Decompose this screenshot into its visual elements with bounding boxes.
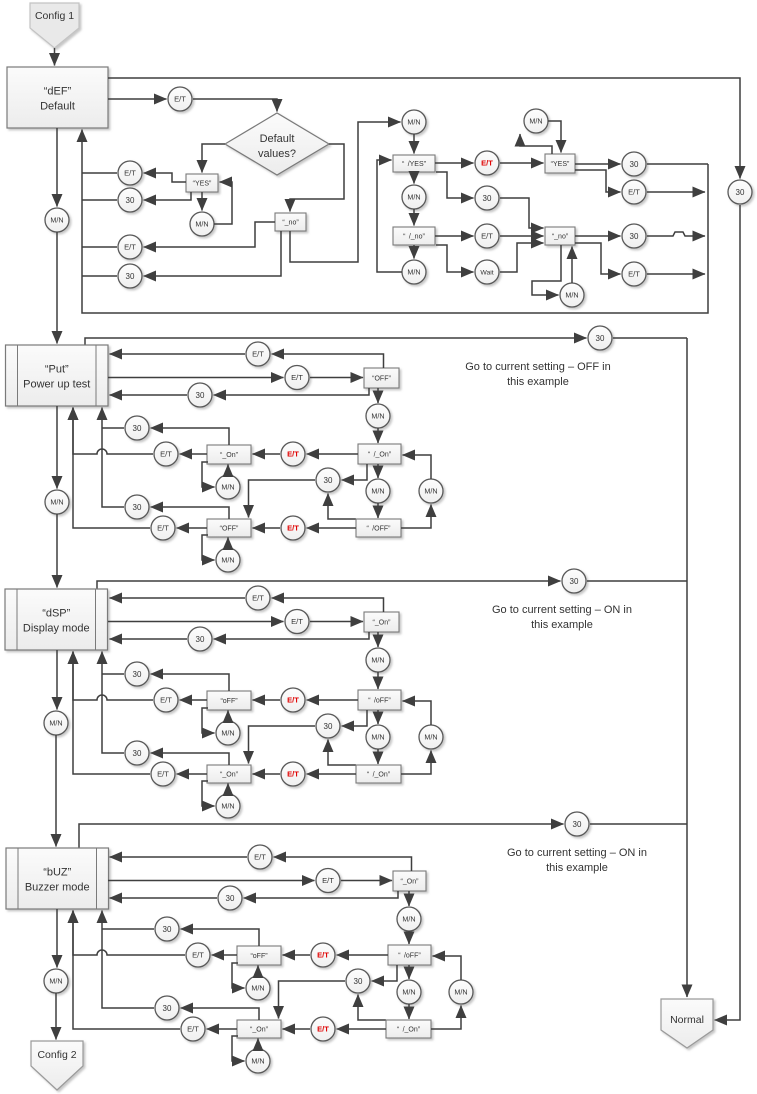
svg-text:Normal: Normal	[670, 1014, 704, 1026]
svg-text:E/T: E/T	[157, 524, 169, 533]
wire YES2 to M/N top loop	[520, 134, 552, 154]
wire YES2 to 30	[575, 163, 621, 165]
node 30 far right	[728, 180, 752, 204]
node M/N s4 hook2	[246, 1049, 270, 1073]
svg-text:30: 30	[133, 670, 142, 679]
wire /YES to E/T red	[435, 162, 474, 164]
svg-text:E/T: E/T	[174, 95, 186, 104]
state _no right	[545, 227, 575, 245]
wire s3 30 to down rail	[587, 580, 687, 582]
node E/T red s4 b	[311, 1017, 335, 1041]
wire Wait to _no right	[500, 243, 544, 272]
wire s2 botboxr to M/N right	[401, 505, 431, 529]
svg-text:Config 2: Config 2	[37, 1049, 76, 1061]
wire E/T row to right rail	[647, 191, 705, 193]
wire s4 midbox to E/T red	[337, 954, 389, 956]
wire s4 midbox to M/N b	[408, 965, 410, 979]
wire far-right down to Normal right side	[715, 205, 741, 1020]
wire s2 botboxl top to 30	[151, 507, 230, 519]
svg-text:E/T: E/T	[192, 951, 204, 960]
wire s3 botboxl hook to M/N	[202, 781, 215, 806]
node E/T s3 r1	[246, 586, 270, 610]
wire s3 M/N to midbox	[377, 672, 379, 689]
wire s3 topbox to M/N	[377, 632, 379, 647]
state s4 /_On	[386, 1020, 431, 1038]
node E/T s4 r2	[316, 869, 340, 893]
process s4 bUZ	[6, 848, 109, 909]
node E/T red s2 b	[281, 516, 305, 540]
wire s3 midbox corner to 30mid	[342, 710, 368, 726]
svg-text:Display mode: Display mode	[23, 623, 90, 635]
node 30 s4 midleft	[155, 917, 179, 941]
node E/T s2 bot	[151, 516, 175, 540]
svg-text:“YES”: “YES”	[551, 161, 570, 168]
svg-text:E/T: E/T	[287, 524, 299, 533]
svg-text:Go to current setting – OFF in: Go to current setting – OFF in	[465, 361, 611, 373]
wire /YES corner to 30d	[436, 172, 474, 198]
svg-text:M/N: M/N	[407, 268, 420, 277]
node Wait	[475, 260, 499, 284]
svg-text:values?: values?	[258, 148, 296, 160]
node E/T s2 mid	[154, 442, 178, 466]
node E/T red s2 a	[281, 442, 305, 466]
node M/N s1g	[402, 110, 426, 134]
wire bUZ to M/N spine4	[56, 909, 58, 968]
svg-text:M/N: M/N	[402, 915, 415, 924]
svg-text:M/N: M/N	[221, 802, 234, 811]
wire s2 M/N b to botbox	[377, 503, 379, 518]
node E/T red s4 a	[311, 943, 335, 967]
node M/N s4 b	[397, 980, 421, 1004]
svg-text:“bUZ”: “bUZ”	[43, 867, 71, 879]
wire s2 30 to rail102	[102, 427, 124, 429]
svg-text:E/T: E/T	[252, 594, 264, 603]
svg-text:this example: this example	[531, 619, 593, 631]
wire YES2 to E/T row	[575, 170, 621, 192]
svg-text:E/T: E/T	[481, 159, 493, 168]
wire s4 E/T r2 to topbox	[341, 880, 392, 882]
wire goto rail down to Normal	[686, 338, 688, 997]
wire s2 M/N right loop to midbox	[403, 455, 432, 479]
node M/N s1o	[402, 260, 426, 284]
node 30 s1j	[622, 152, 646, 176]
wire s3 topbox to E/T row1	[272, 598, 384, 612]
note s2 goto text	[465, 361, 611, 388]
wire s2 E/T red to leftbox	[253, 453, 281, 455]
svg-text:“ /oFF”: “ /oFF”	[368, 698, 391, 705]
state s2 OFF	[207, 519, 251, 537]
wire diamond yes branch to YES box	[202, 144, 225, 173]
node 30 s4 botleft	[155, 996, 179, 1020]
process s2 Put	[6, 345, 109, 406]
wire dSP to M/N spine3	[56, 650, 58, 710]
wire s3 E/T to left rail	[73, 652, 153, 701]
wire s4 midbox corner to 30mid	[372, 965, 398, 981]
wire s2 30 r3 to box	[110, 394, 188, 396]
svg-text:M/N: M/N	[371, 656, 384, 665]
state _no left	[275, 213, 306, 231]
wire s3 M/N b to botbox	[377, 749, 379, 764]
node 30 s3 goto	[562, 569, 586, 593]
wire section1 return loop	[82, 130, 708, 314]
process s3 dSP	[5, 589, 108, 650]
wire s4 botboxr to E/T red2	[337, 1028, 387, 1030]
wire s2 midbox to E/T red	[307, 453, 359, 455]
state s3 _On top	[364, 612, 399, 632]
svg-text:30: 30	[573, 820, 582, 829]
svg-text:“dEF”: “dEF”	[44, 86, 72, 98]
node M/N s3 hook1	[216, 721, 240, 745]
wire _no feedback to right cluster M/N	[290, 122, 401, 262]
wire 30 to right rail	[647, 163, 708, 165]
svg-text:“ /YES”: “ /YES”	[402, 161, 427, 168]
node M/N s2 b	[366, 479, 390, 503]
wire s3 30 to rail102 up	[102, 652, 124, 754]
wire dEF down to M/N spine	[56, 128, 58, 207]
svg-text:E/T: E/T	[252, 350, 264, 359]
node 30 s2 botleft	[125, 495, 149, 519]
wire s2 M/N up into leftbox	[227, 465, 229, 476]
node E/T s1n	[475, 224, 499, 248]
svg-text:E/T: E/T	[317, 951, 329, 960]
node E/T red s3 a	[281, 688, 305, 712]
node 30 s1m	[475, 186, 499, 210]
svg-text:M/N: M/N	[251, 1057, 264, 1066]
wire 30 to return rail	[82, 199, 117, 201]
wire _no to 30 row4	[144, 231, 282, 276]
wire s2 30 to down rail	[613, 337, 687, 339]
svg-text:30: 30	[630, 160, 639, 169]
svg-text:this example: this example	[546, 862, 608, 874]
node 30 s2 mid	[316, 468, 340, 492]
svg-text:“Put”: “Put”	[45, 364, 69, 376]
node M/N s1i	[524, 109, 548, 133]
wire s3 box to E/T r2	[108, 621, 284, 623]
svg-text:Default: Default	[260, 133, 295, 145]
svg-text:M/N: M/N	[402, 988, 415, 997]
wire s2 topbox to M/N	[377, 388, 379, 403]
svg-text:E/T: E/T	[287, 450, 299, 459]
wire _no right to 30	[575, 235, 621, 237]
state s2 /OFF	[356, 519, 401, 537]
wire s4 30 to rail102	[102, 928, 154, 930]
wire E/T to diamond	[193, 99, 277, 112]
wire /_no to E/T	[435, 235, 474, 237]
svg-text:“oFF”: “oFF”	[250, 953, 268, 960]
node 30 s3 botleft	[125, 741, 149, 765]
node M/N s4 hook1	[246, 976, 270, 1000]
state YES right	[545, 154, 575, 173]
wire M/N loop into YES2	[548, 121, 561, 153]
wire s4 botboxl to E/T2	[207, 1028, 238, 1030]
wire spine4 to Config2	[55, 993, 57, 1040]
wire diamond no branch to _no box	[290, 144, 344, 212]
svg-text:E/T: E/T	[160, 450, 172, 459]
wire s3 botboxr corner to 30mid	[328, 740, 356, 766]
wire spine3 to bUZ	[55, 735, 57, 847]
wire s2 midbox corner to 30mid	[342, 464, 368, 480]
wire s4 E/T red to leftbox	[283, 954, 311, 956]
svg-text:“_On”: “_On”	[220, 452, 239, 459]
node M/N s3 b	[366, 725, 390, 749]
svg-text:E/T: E/T	[254, 853, 266, 862]
node 30 s3 mid	[316, 714, 340, 738]
wire s4 M/N to midbox	[408, 931, 410, 944]
wire s2 E/T2 to rail73	[73, 408, 150, 529]
node M/N spine2	[45, 490, 69, 514]
node M/N spine4	[44, 969, 68, 993]
wire dEF to E/T	[108, 98, 167, 100]
node E/T s1c	[118, 161, 142, 185]
svg-text:30: 30	[324, 722, 333, 731]
wire s2 30 to rail102 up	[102, 408, 124, 508]
svg-text:M/N: M/N	[221, 556, 234, 565]
node 30 s3 midleft	[125, 662, 149, 686]
wire s3 midbox to E/T red	[307, 699, 359, 701]
node E/T red s3 b	[281, 762, 305, 786]
terminator Normal	[661, 999, 713, 1048]
wire s3 E/T2 to rail73	[73, 652, 150, 775]
svg-text:E/T: E/T	[628, 188, 640, 197]
svg-text:“ /_no”: “ /_no”	[403, 234, 425, 241]
wire s4 E/T2 to rail73	[73, 911, 180, 1030]
decision Default values?	[225, 113, 329, 175]
terminator Config 2	[31, 1041, 83, 1090]
wire s4 botboxr corner to 30mid	[358, 995, 386, 1021]
svg-text:“YES”: “YES”	[193, 181, 212, 188]
svg-text:30: 30	[196, 391, 205, 400]
wire /_no corner to Wait	[436, 245, 474, 272]
node 30 s4 goto	[565, 812, 589, 836]
wire /_no to M/N below	[413, 245, 415, 259]
svg-text:M/N: M/N	[407, 118, 420, 127]
wire s2 botboxr to E/T red2	[307, 527, 357, 529]
wire s4 E/T red2 to botboxl	[283, 1028, 311, 1030]
svg-text:30: 30	[736, 188, 745, 197]
wire YES to 30 left	[144, 192, 192, 200]
wire s2 E/T to left rail	[73, 408, 153, 455]
wire MN loop back to YES	[214, 182, 232, 224]
node 30 s4 r3	[218, 886, 242, 910]
wire YES to E/T left	[144, 173, 187, 182]
wire E/T red to YES2	[500, 162, 544, 164]
svg-text:M/N: M/N	[371, 487, 384, 496]
node E/T s3 r2	[285, 610, 309, 634]
svg-text:E/T: E/T	[291, 373, 303, 382]
svg-text:E/T: E/T	[157, 770, 169, 779]
wire s3 M/N up into botboxl	[227, 784, 229, 795]
svg-text:“_On”: “_On”	[220, 772, 239, 779]
wire s4 leftbox hook to M/N	[232, 963, 245, 988]
wire s4 botboxr to M/N right	[431, 1006, 461, 1030]
wire s3 leftbox top to 30	[151, 674, 230, 691]
svg-text:Go to current setting – ON in: Go to current setting – ON in	[507, 847, 647, 859]
svg-text:“ /_On”: “ /_On”	[367, 772, 391, 779]
node M/N s1l	[402, 185, 426, 209]
svg-text:30: 30	[354, 977, 363, 986]
svg-text:30: 30	[126, 272, 135, 281]
svg-text:M/N: M/N	[424, 733, 437, 742]
node E/T s4 r1	[248, 845, 272, 869]
wire s2 botboxl hook to M/N	[202, 535, 215, 560]
node E/T s2 r2	[285, 366, 309, 390]
wire s3 E/T red2 to botboxl	[253, 773, 281, 775]
wire s4 topbox to M/N	[408, 891, 410, 906]
node 30 s2 midleft	[125, 416, 149, 440]
svg-text:30: 30	[196, 635, 205, 644]
node 30 s1f	[118, 264, 142, 288]
wire E/T to return rail	[82, 172, 117, 174]
wire s3 M/N up into leftbox	[227, 711, 229, 722]
svg-text:M/N: M/N	[424, 487, 437, 496]
state YES	[186, 174, 218, 192]
wire s4 M/N right loop to midbox	[433, 956, 462, 980]
wire s3 30 to rail102	[102, 673, 124, 675]
state s2 OFF top	[364, 368, 399, 388]
svg-text:Buzzer mode: Buzzer mode	[25, 882, 90, 894]
svg-text:“OFF”: “OFF”	[220, 526, 239, 533]
node M/N s4 a	[397, 907, 421, 931]
note s3 goto text	[492, 604, 632, 631]
node E/T s1e	[118, 235, 142, 259]
wire s2 30mid to botbox top	[249, 480, 316, 518]
process dEF Default	[7, 67, 108, 128]
wire s2 E/T r1 to box	[110, 353, 246, 355]
state s3 _On	[207, 765, 251, 783]
state s4 _On	[237, 1020, 281, 1038]
svg-text:Config 1: Config 1	[35, 10, 74, 22]
wire dEF to far-right 30	[108, 78, 740, 179]
svg-text:“ /OFF”: “ /OFF”	[367, 526, 392, 533]
node 30 s3 r3	[188, 627, 212, 651]
state s2 /_On	[358, 444, 401, 464]
svg-text:M/N: M/N	[50, 498, 63, 507]
svg-text:30: 30	[226, 894, 235, 903]
wire s2 M/N to midbox	[377, 428, 379, 443]
wire _no to E/T row3	[144, 222, 276, 247]
node M/N s1r	[560, 283, 584, 307]
wire s2 E/T r2 to topbox	[310, 377, 363, 379]
wire s2 midbox to M/N b	[377, 464, 379, 478]
wire s3 leftbox to E/T	[180, 699, 208, 701]
svg-text:30: 30	[324, 476, 333, 485]
wire s4 E/T r1 to box	[110, 856, 248, 858]
svg-text:M/N: M/N	[565, 291, 578, 300]
node E/T s1k	[622, 180, 646, 204]
wire s3 midbox to M/N b	[377, 710, 379, 724]
wire E/T to rail	[647, 273, 705, 275]
state s4 _On top	[393, 871, 426, 891]
node E/T s3 bot	[151, 762, 175, 786]
wire s2 leftbox to E/T	[180, 453, 208, 455]
node M/N s2 hook1	[216, 475, 240, 499]
wire spine2 to dSP	[56, 514, 58, 588]
wire M/N feedback to /YES	[377, 160, 402, 272]
node M/N s2 hook2	[216, 548, 240, 572]
state /_no	[393, 227, 435, 245]
node M/N spine1	[45, 208, 69, 232]
svg-text:Power up test: Power up test	[23, 379, 90, 391]
node M/N s3 a	[366, 648, 390, 672]
svg-text:“oFF”: “oFF”	[220, 698, 238, 705]
svg-text:M/N: M/N	[49, 977, 62, 986]
wire s2 leftbox top to 30	[151, 428, 230, 445]
wire /YES to M/N below	[413, 172, 415, 184]
wire s3 E/T r2 to topbox	[310, 621, 363, 623]
node M/N s3 right	[419, 725, 443, 749]
svg-text:30: 30	[570, 577, 579, 586]
svg-text:30: 30	[133, 424, 142, 433]
wire s4 30 r3 to box	[110, 897, 218, 899]
state s3 /_On	[356, 765, 401, 783]
svg-text:Go to current setting – ON in: Go to current setting – ON in	[492, 604, 632, 616]
svg-text:“OFF”: “OFF”	[372, 376, 391, 383]
node E/T s2 r1	[246, 342, 270, 366]
node E/T s4 mid	[186, 943, 210, 967]
node E/T s1q	[622, 262, 646, 286]
wire M/N to /YES	[413, 134, 415, 154]
node M/N s1b	[190, 212, 214, 236]
terminator Config 1	[30, 3, 79, 48]
note s4 goto text	[507, 847, 647, 874]
svg-text:E/T: E/T	[187, 1025, 199, 1034]
wire 30 to rail with jog	[647, 232, 705, 236]
node E/T s4 bot	[181, 1017, 205, 1041]
wire s4 30 to rail102 up	[102, 911, 154, 1009]
svg-text:E/T: E/T	[124, 169, 136, 178]
wire s4 leftbox to E/T	[212, 954, 238, 956]
svg-text:30: 30	[163, 1004, 172, 1013]
state s2 _On	[207, 445, 251, 464]
wire s2 botboxl to E/T2	[177, 527, 208, 529]
wire M/N to /_no	[413, 209, 415, 226]
node 30 s1p	[622, 224, 646, 248]
wire s4 topbox to 30 r3	[244, 891, 399, 898]
svg-text:“_no”: “_no”	[282, 220, 299, 227]
wire s3 topbox to 30 r3	[214, 632, 370, 639]
wire s3 botboxl top to 30	[151, 753, 230, 765]
svg-text:“_On”: “_On”	[373, 620, 392, 627]
wire s2 M/N up into botboxl	[227, 538, 229, 549]
svg-text:this example: this example	[507, 376, 569, 388]
wire s2 boundary to 30	[85, 338, 587, 345]
svg-text:E/T: E/T	[628, 270, 640, 279]
svg-text:M/N: M/N	[49, 719, 62, 728]
svg-text:E/T: E/T	[287, 770, 299, 779]
wire s4 topbox to E/T row1	[274, 857, 412, 871]
wire s4 E/T to left rail	[73, 911, 185, 956]
wire s3 botboxl to E/T2	[177, 773, 208, 775]
wire _no right to E/T row	[575, 243, 621, 274]
wire s4 boundary to 30	[79, 824, 564, 848]
state s3 oFF	[207, 691, 251, 710]
wire s3 M/N right loop to midbox	[403, 701, 432, 725]
wire Put to M/N spine2	[56, 406, 58, 489]
node M/N s4 right	[449, 980, 473, 1004]
state s4 oFF	[237, 946, 281, 965]
svg-text:“_no”: “_no”	[552, 234, 569, 241]
wire spine M/N to Put box	[56, 232, 58, 344]
svg-text:E/T: E/T	[287, 696, 299, 705]
wire s3 leftbox hook to M/N	[202, 708, 215, 733]
wire s2 E/T red2 to botboxl	[253, 527, 281, 529]
node M/N s3 hook2	[216, 794, 240, 818]
svg-text:M/N: M/N	[195, 220, 208, 229]
node M/N spine3	[44, 711, 68, 735]
svg-text:“ /_On”: “ /_On”	[397, 1027, 421, 1034]
svg-text:“dSP”: “dSP”	[42, 608, 70, 620]
node M/N s2 a	[366, 404, 390, 428]
